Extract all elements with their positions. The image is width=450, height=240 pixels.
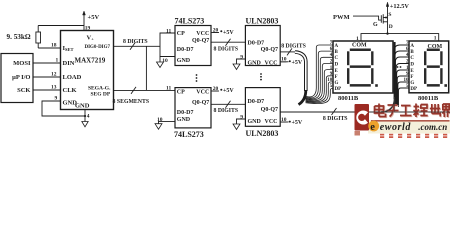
svg-text:.com.cn: .com.cn [418,122,447,132]
svg-text:18: 18 [51,43,57,49]
svg-text:4: 4 [87,114,90,120]
svg-text:SEG DP: SEG DP [91,92,111,98]
svg-text:DIN: DIN [63,60,75,67]
svg-text:G: G [373,22,378,28]
svg-text:COM: COM [352,43,367,49]
svg-text:+12.5V: +12.5V [390,3,410,10]
svg-text:DP: DP [335,87,342,92]
svg-text:SEGA-G.: SEGA-G. [88,85,111,91]
svg-text:V+: V+ [87,35,95,42]
svg-text:DIG0-DIG7: DIG0-DIG7 [85,45,111,50]
svg-text:D0-D7: D0-D7 [248,99,265,105]
svg-text:D0-D7: D0-D7 [177,110,194,116]
svg-text:D: D [389,24,393,30]
svg-text:8 DIGITS: 8 DIGITS [123,39,148,45]
svg-text:+5V: +5V [223,30,234,36]
svg-text:G: G [410,81,414,86]
svg-text:D: D [410,63,414,68]
svg-text:1: 1 [434,35,437,41]
svg-text:ISET: ISET [63,45,74,52]
svg-text:CP: CP [177,31,185,37]
svg-text:ULN2803: ULN2803 [246,129,279,138]
svg-text:80011B: 80011B [338,95,359,102]
svg-text:GND: GND [177,58,191,64]
svg-text:D: D [335,63,339,68]
svg-text:Q0-Q7: Q0-Q7 [261,107,278,113]
svg-text:10: 10 [162,58,168,64]
svg-text:F: F [410,75,413,80]
svg-text:VCC: VCC [196,90,209,96]
svg-text:F: F [335,75,338,80]
svg-text:DP: DP [410,87,417,92]
svg-text:MOSI: MOSI [13,60,31,67]
svg-text:S: S [388,12,391,18]
svg-text:9: 9 [240,54,243,60]
svg-text:13: 13 [51,85,57,91]
svg-text:10: 10 [281,57,287,63]
svg-text:11: 11 [166,86,171,92]
svg-text:Q0-Q7: Q0-Q7 [192,38,209,44]
svg-text:Q0-Q7: Q0-Q7 [192,100,209,106]
svg-text:VCC: VCC [265,119,278,125]
svg-text:D0-D7: D0-D7 [248,41,265,47]
svg-text:e: e [370,122,375,133]
svg-text:10: 10 [404,78,410,83]
svg-text:GND: GND [177,117,191,123]
svg-text:74LS273: 74LS273 [175,16,205,25]
svg-text:LOAD: LOAD [63,74,82,81]
svg-text:8 DIGITS: 8 DIGITS [281,43,306,49]
svg-text:+5V: +5V [292,60,303,66]
svg-text:1: 1 [56,58,59,64]
svg-text:ULN2803: ULN2803 [246,16,279,25]
svg-text:C: C [410,56,414,61]
svg-text:19: 19 [85,26,91,32]
svg-text:10: 10 [281,117,287,123]
svg-text:SCK: SCK [17,87,30,94]
svg-text:CP: CP [177,90,185,96]
svg-text:8 DIGITS: 8 DIGITS [214,46,239,52]
svg-text:C: C [335,56,339,61]
svg-text:VCC: VCC [265,60,278,66]
svg-text:Q0-Q7: Q0-Q7 [261,47,278,53]
svg-text:MAX7219: MAX7219 [75,57,106,65]
svg-text:PWM: PWM [333,14,350,21]
svg-text:GND: GND [248,119,262,125]
svg-text:GND: GND [248,60,262,66]
svg-text:80011B: 80011B [418,95,439,102]
svg-text:D0-D7: D0-D7 [177,47,194,53]
svg-text:10: 10 [157,117,163,123]
svg-text:11: 11 [166,28,171,34]
svg-text:10: 10 [327,78,333,83]
svg-text:+5V: +5V [88,14,100,21]
svg-text:12: 12 [51,72,57,78]
svg-text:GND: GND [75,102,90,109]
svg-text:μP I/O: μP I/O [12,74,30,81]
svg-text:8 DIGITS: 8 DIGITS [214,108,239,114]
svg-text:8 SEGMENTS: 8 SEGMENTS [113,99,150,105]
svg-text:A: A [335,44,339,49]
svg-text:74LS273: 74LS273 [174,130,204,139]
svg-text:COM: COM [428,44,443,50]
svg-text:A: A [410,44,414,49]
svg-text:CLK: CLK [63,87,77,94]
svg-text:9: 9 [55,96,58,102]
svg-text:1: 1 [356,36,359,42]
svg-text:20: 20 [213,27,219,33]
svg-text:9: 9 [240,114,243,120]
svg-text:VCC: VCC [196,31,209,37]
svg-text:+5V: +5V [292,120,303,126]
svg-text:9. 53kΩ: 9. 53kΩ [7,33,31,41]
svg-text:+5V: +5V [223,88,234,94]
svg-text:20: 20 [213,86,219,92]
svg-text:8 DIGITS: 8 DIGITS [323,116,348,122]
svg-text:eworld: eworld [380,122,412,133]
svg-text:G: G [335,81,339,86]
